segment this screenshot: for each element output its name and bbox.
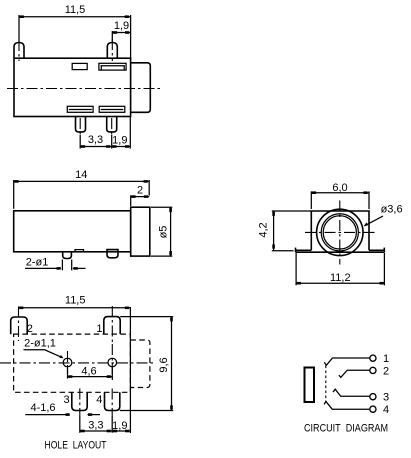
dimension 1.9 (top view, top) [112,20,130,42]
dimension 1.9 (top view, bottom) [112,117,131,149]
svg-text:4,6: 4,6 [81,366,96,378]
centerline bottom pin right [111,118,113,137]
svg-text:6,0: 6,0 [332,182,347,194]
svg-text:2-ø1,1: 2-ø1,1 [24,338,56,350]
svg-text:4: 4 [383,404,389,416]
barrel dashed outline (hole layout) [130,340,150,388]
horizontal centerline (hole layout) [0,362,155,364]
vertical centerline (front view) [339,201,341,265]
svg-text:1: 1 [96,323,102,335]
svg-text:ø3,6: ø3,6 [381,204,403,216]
svg-text:1: 1 [383,353,389,365]
svg-text:4-1,6: 4-1,6 [30,402,55,414]
svg-text:HOLE LAYOUT: HOLE LAYOUT [45,440,107,452]
horizontal centerline (top view) [7,88,160,90]
svg-text:11,5: 11,5 [65,4,86,16]
svg-text:9,6: 9,6 [158,357,170,372]
svg-text:2: 2 [137,185,143,197]
top pin left (top view) [14,43,24,59]
barrel (side view) [131,207,150,256]
mounting bump (side view) [75,250,84,252]
bottom pin right (top view) [107,117,117,132]
body outline (front view) [311,211,369,250]
svg-text:1,9: 1,9 [112,135,127,147]
centerline top pin right [111,39,113,61]
plug dashed line [325,366,327,402]
svg-text:3: 3 [383,392,389,404]
dimension 11.2 (front view) [296,253,384,285]
label 2-dia1.1 with leader (hole layout) [24,338,64,359]
terminal 2 [370,367,376,373]
centerline pad 1 [111,306,113,343]
svg-text:2-ø1: 2-ø1 [26,257,49,269]
right extension line (hole layout) [129,307,131,433]
pad 4 (hole layout, bottom-right) [105,392,120,410]
svg-text:4: 4 [96,394,102,406]
bottom pin left (top view) [76,117,86,132]
contact 2 (switch contact) [339,370,370,377]
slot upper-right (top view) [99,63,126,70]
barrel protrusion (top view) [131,63,151,113]
horizontal centerline (front view) [305,231,375,233]
svg-text:11,5: 11,5 [65,295,86,307]
pin 2 stub (side view) [107,250,118,258]
svg-text:4,2: 4,2 [258,222,270,237]
svg-text:2: 2 [383,365,389,377]
slot lower-right (top view) [99,106,125,112]
dimension 11.5 (hole layout) [19,295,131,310]
centerline pad 3 [79,389,81,417]
svg-text:CIRCUIT DIAGRAM: CIRCUIT DIAGRAM [304,423,388,435]
plug body [305,368,315,403]
dimension 4.6 (hole layout) [68,366,113,379]
svg-text:1,9: 1,9 [114,20,129,32]
terminal 4 [370,406,376,412]
dimension 3.3 (hole layout) [80,416,112,433]
svg-text:ø5: ø5 [158,226,170,239]
dimension 1.9 (hole layout) [112,420,130,432]
centerline top pin left [18,40,20,61]
dimension dia 5 (side view) [151,207,172,256]
svg-text:1,9: 1,9 [112,420,127,432]
terminal 1 [370,355,376,361]
inner circle (front view) [323,216,356,249]
slot upper-left (top view) [72,63,87,69]
slot lower-left (top view) [67,106,93,112]
pin 1 (side view) [63,252,72,259]
dimension 2 (side view) [131,185,150,207]
contact 1 (tip spring) [324,358,370,365]
pad 1 (hole layout, top-right) [104,317,120,335]
dimension 4.2 (front view) [258,211,312,251]
centerline pad 4 [111,389,113,417]
outer circle (front view) [317,209,363,255]
centerline pad 2 [18,307,20,342]
dimension 14 (side view) [14,169,150,209]
body dashed outline (hole layout) [14,334,131,392]
centerline hole 1 [67,351,69,374]
body outline (top view) [14,58,131,116]
label dia 3.6 (front view) [364,204,403,227]
hole 1 (hole layout) [63,358,72,367]
svg-text:3,3: 3,3 [88,134,103,146]
contact 4 (sleeve) [324,402,370,410]
centerline bottom pin left [79,118,81,137]
svg-text:14: 14 [75,169,87,181]
svg-text:3: 3 [64,394,70,406]
body outline (side view) [14,211,131,252]
svg-text:2: 2 [27,323,33,335]
svg-text:11,2: 11,2 [330,272,351,284]
middle circle (front view) [321,214,358,251]
terminal 3 [370,394,376,400]
centerline hole 2 [111,344,113,382]
dimension 3.3 (top view, bottom) [80,134,112,149]
pad 3 (hole layout, bottom-left) [72,392,87,410]
dimension 11.5 (top view) [19,4,131,58]
top pin right (top view) [107,43,117,59]
contact 3 (ring spring) [333,389,370,396]
dimension 9.6 (hole layout) [120,317,173,411]
pad 2 (hole layout, top-left) [11,317,28,334]
hole 2 (hole layout) [108,358,117,367]
dimension 6.0 (front view) [311,182,369,209]
svg-text:3,3: 3,3 [88,420,103,432]
flange (front view) [296,248,385,253]
label 2-dia1 (side view) [25,257,86,271]
label 4-1.6 with leaders (hole layout) [25,402,100,416]
